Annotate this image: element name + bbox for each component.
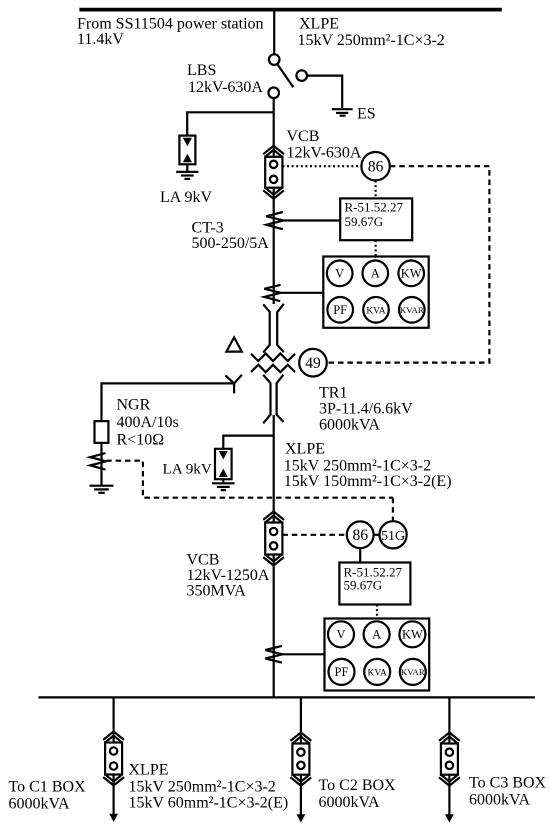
svg-text:KVAR: KVAR: [400, 305, 424, 315]
feeder 2 breaker chevrons (top): [291, 733, 312, 741]
label: XLPE feeder cable spec: [129, 762, 289, 812]
svg-text:ES: ES: [357, 106, 376, 123]
circuit breaker VCB2 12kV-1250A: [265, 523, 282, 555]
label: VCB 12kV-630A: [287, 128, 362, 162]
wire: meter CT to meter box 1: [281, 292, 324, 294]
relay 49: [299, 349, 327, 377]
wire: bus to LBS: [273, 11, 275, 54]
resistor NGR: [95, 421, 109, 443]
dotted control wire: VCB1 to relay 86: [282, 165, 361, 167]
wire: VCB2 to bottom bus (main line): [273, 555, 275, 698]
svg-text:12kV-630A: 12kV-630A: [188, 79, 263, 96]
svg-text:XLPE: XLPE: [299, 16, 339, 33]
svg-text:59.67G: 59.67G: [345, 214, 384, 229]
dotted control wire: 86 to relay box 1: [375, 181, 377, 199]
wire: LA1 to ground: [186, 164, 188, 172]
label: To C2 BOX 6000kVA: [319, 777, 397, 811]
label: VCB 12kV-1250A 350MVA: [187, 551, 270, 599]
wire: transformer to VCB2 (main line): [273, 415, 275, 523]
meter KVA (lower): [364, 659, 390, 685]
svg-text:400A/10s: 400A/10s: [117, 414, 179, 431]
svg-text:86: 86: [352, 527, 368, 544]
feeder 3: wire from bus: [448, 697, 450, 743]
label: NGR 400A/10s R<10ohm: [117, 397, 179, 449]
label: To C3 BOX 6000kVA: [469, 775, 547, 809]
svg-text:15kV 150mm²-1C×3-2(E): 15kV 150mm²-1C×3-2(E): [284, 473, 452, 490]
svg-text:59.67G: 59.67G: [344, 577, 383, 592]
feeder 2 outgoing arrow: [300, 775, 302, 816]
relay 86 (lower): [347, 521, 374, 548]
svg-text:500-250/5A: 500-250/5A: [192, 235, 270, 252]
wire: NGR branch from wye: [102, 383, 235, 421]
wire: meter CT to meter box 2: [282, 653, 324, 655]
arrester LA2 9kV: [215, 449, 232, 479]
dashed control wire: NGR CT to 51G: [106, 461, 393, 498]
svg-text:To C3 BOX: To C3 BOX: [469, 775, 547, 792]
meter KW: [398, 261, 424, 287]
svg-text:KW: KW: [401, 267, 422, 281]
arrester LA1 9kV: [179, 136, 195, 165]
wire: ES branch: [307, 76, 342, 108]
feeder 1 outgoing arrow: [112, 775, 114, 816]
svg-text:LA 9kV: LA 9kV: [163, 460, 212, 477]
label: CT-3 500-250/5A: [192, 220, 270, 253]
current transformer CT-3 zigzag (upper): [266, 212, 283, 229]
svg-text:KVA: KVA: [366, 306, 385, 316]
dashed control wire: 86 to 49 loop: [326, 166, 490, 362]
svg-text:To C2 BOX: To C2 BOX: [319, 777, 397, 794]
meter PF (lower): [329, 659, 355, 685]
svg-text:KW: KW: [402, 628, 423, 642]
svg-text:PF: PF: [335, 665, 349, 679]
VCB1 drawout chevrons (bottom): [263, 190, 284, 198]
LBS blade: [277, 64, 293, 87]
relay box R-51.52.27 59.67G (upper): [340, 198, 412, 240]
meter box 2: [325, 619, 430, 691]
svg-text:6000kVA: 6000kVA: [9, 796, 70, 813]
svg-text:KVA: KVA: [368, 668, 387, 678]
svg-text:A: A: [372, 628, 381, 642]
label: To C1 BOX 6000kVA: [9, 779, 87, 813]
svg-text:KVAR: KVAR: [401, 667, 425, 677]
dotted control wire: relay box 2 to meter box 2: [376, 605, 378, 619]
relay box R-51.52.27 59.67G (lower): [339, 563, 410, 605]
svg-text:XLPE: XLPE: [285, 440, 325, 457]
VCB2 drawout chevrons (bottom): [263, 557, 284, 565]
svg-text:6000kVA: 6000kVA: [319, 794, 380, 811]
meter A: [363, 261, 389, 287]
current transformer zigzag (meter CT lower): [265, 646, 282, 663]
svg-text:51G: 51G: [381, 529, 405, 544]
transformer TR1 primary winding: [263, 304, 270, 352]
ground LA2: [212, 482, 235, 484]
svg-text:VCB: VCB: [287, 128, 320, 145]
meter KVA: [363, 297, 389, 323]
svg-text:VCB: VCB: [187, 551, 220, 568]
wye symbol (secondary): [225, 375, 242, 384]
svg-text:6000kVA: 6000kVA: [469, 792, 530, 809]
relay 51G: [380, 521, 407, 548]
meter box 1: [323, 257, 428, 328]
feeder 2 breaker chevrons (bottom): [291, 777, 312, 785]
svg-text:49: 49: [305, 355, 321, 372]
feeder 3 breaker chevrons (bottom): [439, 777, 460, 785]
ground ES: [332, 108, 353, 110]
bottom bus: [39, 696, 535, 698]
svg-text:V: V: [336, 628, 345, 642]
wire: branch to arrester LA2: [223, 436, 273, 449]
feeder 3 breaker box: [441, 744, 458, 775]
delta symbol (primary): [226, 337, 241, 351]
wire: LBS to VCB1 (main line): [273, 98, 275, 157]
meter KVAR (lower): [400, 659, 426, 685]
ground NGR: [90, 485, 114, 487]
wire: 86 to 51G: [373, 534, 379, 536]
svg-text:12kV-1250A: 12kV-1250A: [187, 567, 270, 584]
load break switch LBS 12kV-630A: [268, 54, 307, 98]
feeder 2: wire from bus: [300, 697, 302, 743]
transformer TR1 secondary winding: [263, 375, 270, 424]
dotted control wire: relay box 1 to meter box 1: [375, 240, 377, 256]
svg-text:6000kVA: 6000kVA: [319, 417, 380, 434]
svg-text:LA 9kV: LA 9kV: [160, 189, 212, 206]
dashed control wire: 51G up to NGR loop: [392, 498, 394, 522]
svg-text:15kV 60mm²-1C×3-2(E): 15kV 60mm²-1C×3-2(E): [129, 795, 289, 812]
label: XLPE cable spec (incoming): [298, 16, 445, 50]
svg-text:3P-11.4/6.6kV: 3P-11.4/6.6kV: [319, 401, 413, 418]
svg-text:11.4kV: 11.4kV: [77, 31, 124, 48]
svg-text:350MVA: 350MVA: [187, 583, 247, 600]
feeder 3 outgoing arrow: [448, 775, 450, 816]
svg-text:A: A: [371, 267, 380, 281]
feeder 1: wire from bus: [112, 697, 114, 742]
current transformer zigzag (meter CT upper): [264, 285, 281, 301]
circuit breaker VCB2 drawout chevrons (top): [263, 512, 284, 520]
svg-text:12kV-630A: 12kV-630A: [287, 144, 362, 161]
meter KVAR: [399, 297, 425, 323]
svg-text:PF: PF: [333, 303, 347, 317]
wire: CT1 to relay box 1: [283, 219, 340, 221]
wire: NGR resistor to ground: [100, 443, 102, 485]
label: TR1 3P-11.4/6.6kV 6000kVA: [319, 385, 413, 434]
feeder 3 breaker chevrons (top): [439, 733, 460, 741]
feeder 1 breaker chevrons (bottom): [103, 777, 124, 785]
svg-text:V: V: [335, 267, 344, 281]
dashed control wire: VCB2 to relay 86 (lower): [282, 534, 346, 536]
circuit breaker VCB1 12kV-630A: [265, 157, 282, 188]
svg-text:15kV 250mm²-1C×3-2: 15kV 250mm²-1C×3-2: [129, 779, 276, 796]
circuit breaker VCB1 drawout chevrons (top): [263, 146, 284, 154]
svg-text:R<10Ω: R<10Ω: [117, 432, 165, 449]
wire: 86 lower to relay box 2: [359, 548, 361, 562]
svg-text:LBS: LBS: [187, 62, 216, 79]
meter A (lower): [364, 621, 390, 647]
incoming bus (top): [79, 8, 501, 12]
svg-text:15kV 250mm²-1C×3-2: 15kV 250mm²-1C×3-2: [298, 32, 445, 49]
meter KW (lower): [399, 621, 425, 647]
ground LA1: [176, 171, 198, 173]
svg-text:TR1: TR1: [319, 385, 347, 402]
label: From SS11504 power station 11.4kV: [77, 16, 264, 48]
transformer zigzag winding row 2: [251, 365, 295, 372]
label: LBS 12kV-630A: [187, 62, 263, 96]
wire: LA2 to ground: [222, 479, 224, 483]
feeder 1 breaker box: [105, 743, 122, 775]
svg-text:To C1 BOX: To C1 BOX: [9, 779, 87, 796]
meter PF: [327, 297, 353, 323]
meter V (lower): [328, 621, 354, 647]
feeder 1 breaker chevrons (top): [103, 732, 124, 740]
wire: branch to arrester LA1: [187, 112, 274, 135]
svg-text:NGR: NGR: [117, 397, 151, 414]
relay 86 (upper): [361, 152, 389, 180]
wire: VCB1 to CT area (main line): [273, 188, 275, 304]
feeder 2 breaker box: [292, 744, 309, 775]
svg-text:R-51.52.27: R-51.52.27: [345, 200, 404, 215]
transformer zigzag winding row 1: [251, 354, 295, 362]
NGR CT zigzag: [90, 453, 106, 469]
label: XLPE cable spec (transformer secondary): [284, 440, 452, 490]
svg-text:86: 86: [368, 159, 384, 176]
svg-text:CT-3: CT-3: [192, 220, 224, 237]
label: LA 9kV (upper): [160, 189, 212, 206]
meter V: [327, 261, 353, 287]
svg-text:XLPE: XLPE: [129, 762, 169, 779]
